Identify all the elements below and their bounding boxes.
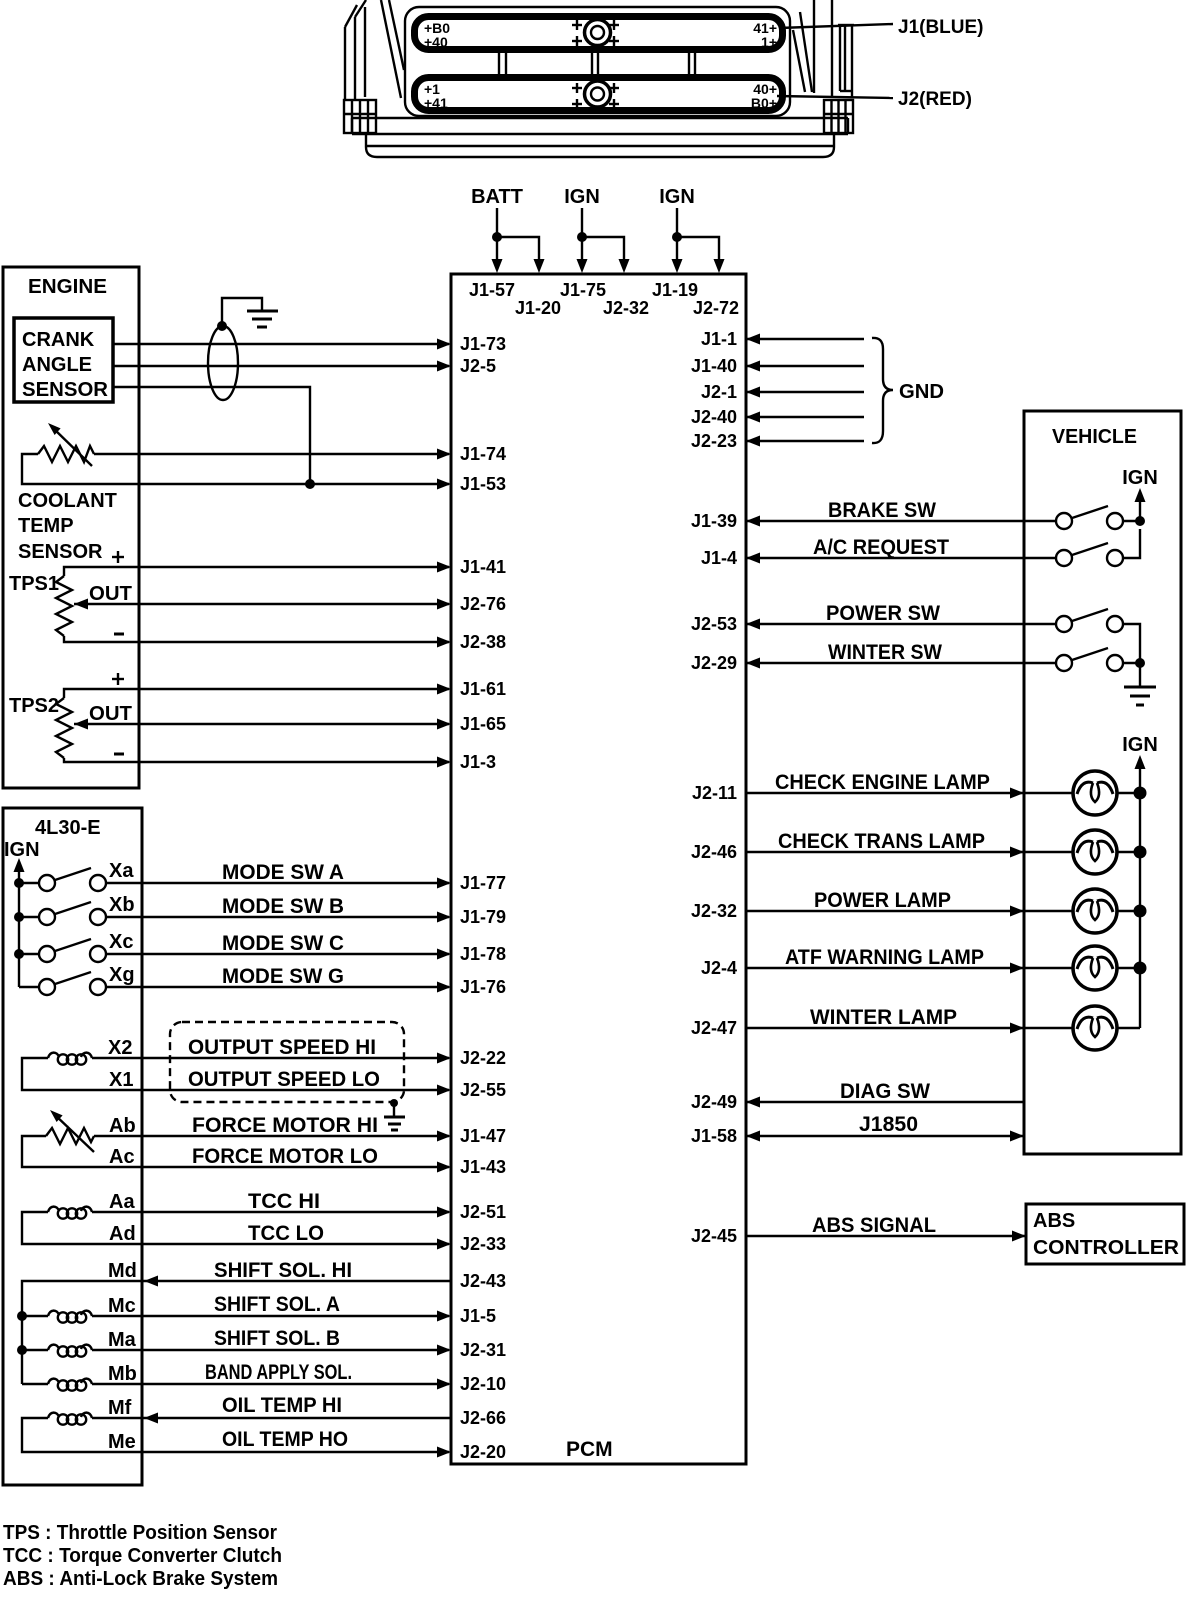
svg-text:J1-3: J1-3 — [460, 752, 496, 772]
PCM module box — [451, 274, 746, 1464]
node Mc junction — [17, 1311, 27, 1321]
svg-text:FORCE MOTOR LO: FORCE MOTOR LO — [192, 1145, 378, 1168]
wire coolant to J1-53 — [22, 454, 451, 490]
IGN feed line with arrow — [14, 858, 25, 987]
connector center ribs — [499, 51, 695, 75]
twisted pair shield ellipse — [208, 326, 238, 400]
svg-text:J1-41: J1-41 — [460, 557, 506, 577]
wire MODE SW A to J1-77 — [106, 861, 451, 889]
wire WINTER LAMP from J2-47 — [746, 1006, 1073, 1034]
svg-text:Mf: Mf — [108, 1397, 132, 1419]
svg-text:Me: Me — [108, 1431, 136, 1453]
VEHICLE box — [1024, 411, 1181, 1154]
svg-text:J2-51: J2-51 — [460, 1202, 506, 1222]
svg-text:J1850: J1850 — [859, 1113, 918, 1136]
wire TCC LO to J2-33 — [22, 1212, 451, 1250]
svg-text:POWER LAMP: POWER LAMP — [814, 889, 951, 912]
svg-text:J1-75: J1-75 — [560, 280, 606, 300]
lamp power lamp — [1073, 889, 1140, 933]
leader J2 — [777, 96, 893, 98]
svg-text:Ab: Ab — [109, 1115, 136, 1137]
wire MODE SW G to J1-76 — [106, 965, 451, 993]
wire FORCE MOTOR LO to J1-43 — [22, 1136, 451, 1173]
svg-text:+40: +40 — [424, 34, 448, 50]
leader J1 — [779, 24, 893, 28]
svg-text:BRAKE SW: BRAKE SW — [828, 499, 936, 522]
wire FORCE MOTOR HI to J1-47 — [94, 1114, 451, 1142]
crank angle sensor box — [14, 318, 113, 402]
wire TPS2 OUT to J1-65 — [74, 719, 451, 730]
wire MODE SW B to J1-79 — [106, 895, 451, 923]
svg-text:J2-10: J2-10 — [460, 1374, 506, 1394]
wire BRAKE SW to J1-39 — [746, 499, 1056, 527]
svg-text:J2-22: J2-22 — [460, 1048, 506, 1068]
node Ma junction — [17, 1345, 27, 1355]
svg-text:J1-74: J1-74 — [460, 444, 506, 464]
wire TPS1 OUT to J2-76 — [74, 599, 451, 610]
wire TCC HI to J2-51 — [92, 1190, 451, 1218]
IGN feed wire (switches) — [1135, 488, 1146, 526]
wire ATF WARNING LAMP from J2-4 — [746, 946, 1073, 974]
svg-text:BATT: BATT — [471, 186, 523, 208]
svg-text:BAND APPLY SOL.: BAND APPLY SOL. — [205, 1361, 352, 1384]
svg-text:Md: Md — [108, 1260, 137, 1282]
svg-text:Xc: Xc — [109, 931, 133, 953]
svg-text:OUTPUT SPEED HI: OUTPUT SPEED HI — [188, 1036, 376, 1059]
housing base plate — [352, 118, 848, 157]
svg-text:Ad: Ad — [109, 1223, 136, 1245]
ground symbol (shield) — [247, 311, 278, 327]
TPS1 minus sign — [114, 633, 124, 636]
svg-text:J1-53: J1-53 — [460, 474, 506, 494]
svg-text:J2-66: J2-66 — [460, 1408, 506, 1428]
wire OIL TEMP HO to J2-20 — [22, 1418, 451, 1458]
svg-text:IGN: IGN — [1122, 734, 1158, 756]
svg-text:SENSOR: SENSOR — [18, 541, 103, 563]
svg-text:J2(RED): J2(RED) — [898, 89, 972, 110]
node Xa junction — [14, 878, 24, 888]
svg-text:J2-20: J2-20 — [460, 1442, 506, 1462]
svg-text:J2-53: J2-53 — [691, 614, 737, 634]
svg-text:TEMP: TEMP — [18, 515, 74, 537]
svg-text:J1-47: J1-47 — [460, 1126, 506, 1146]
oil temp sensor coil Mf — [48, 1397, 136, 1453]
shift solenoid B coil Ma — [22, 1329, 137, 1357]
wire coolant to J1-74 — [94, 449, 451, 460]
svg-text:OUT: OUT — [89, 703, 132, 725]
svg-text:J2-38: J2-38 — [460, 632, 506, 652]
svg-text:TPS1: TPS1 — [9, 573, 59, 595]
svg-text:X2: X2 — [108, 1037, 132, 1059]
TPS2 plus sign — [112, 673, 124, 685]
switch Xc — [19, 931, 133, 962]
svg-text:TCC HI: TCC HI — [248, 1190, 320, 1213]
svg-text:J1-39: J1-39 — [691, 511, 737, 531]
PCM connector housing outline — [345, 0, 854, 116]
BATT wire — [492, 208, 545, 273]
force motor variable resistor Ab/Ac — [46, 1110, 136, 1168]
svg-text:VEHICLE: VEHICLE — [1052, 426, 1137, 448]
svg-text:WINTER LAMP: WINTER LAMP — [810, 1006, 957, 1029]
svg-text:J2-31: J2-31 — [460, 1340, 506, 1360]
svg-text:Mb: Mb — [108, 1363, 137, 1385]
svg-text:J2-32: J2-32 — [603, 298, 649, 318]
node Xc junction — [14, 949, 24, 959]
svg-text:OUT: OUT — [89, 583, 132, 605]
wire CHECK TRANS LAMP from J2-46 — [746, 830, 1073, 858]
housing clip left — [344, 100, 376, 133]
wire BAND APPLY SOL. to J2-10 — [92, 1361, 451, 1390]
IGN wire 1 — [577, 208, 630, 273]
svg-text:POWER SW: POWER SW — [826, 602, 940, 625]
svg-text:J1-58: J1-58 — [691, 1126, 737, 1146]
svg-text:J1-79: J1-79 — [460, 907, 506, 927]
svg-text:J1-57: J1-57 — [469, 280, 515, 300]
COOLANT TEMP SENSOR label — [18, 490, 117, 563]
svg-text:SHIFT SOL. B: SHIFT SOL. B — [214, 1327, 340, 1350]
GND brace — [872, 338, 893, 443]
svg-text:MODE SW G: MODE SW G — [222, 965, 344, 988]
svg-text:J2-46: J2-46 — [691, 842, 737, 862]
svg-text:IGN: IGN — [1122, 467, 1158, 489]
svg-text:CHECK TRANS LAMP: CHECK TRANS LAMP — [778, 830, 985, 853]
shift solenoid A coil Mc — [22, 1295, 136, 1323]
node lamp junction — [1134, 905, 1147, 918]
svg-text:TPS : Throttle Position Sensor: TPS : Throttle Position Sensor — [3, 1522, 277, 1544]
shield drain node — [390, 1099, 398, 1107]
svg-text:GND: GND — [899, 381, 944, 403]
svg-text:COOLANT: COOLANT — [18, 490, 117, 512]
svg-text:SHIFT SOL. HI: SHIFT SOL. HI — [214, 1259, 352, 1282]
svg-text:J1-65: J1-65 — [460, 714, 506, 734]
housing clip right — [824, 100, 853, 133]
wire WINTER SW to J2-29 — [746, 641, 1056, 669]
shielded pair dashed box — [170, 1022, 404, 1102]
svg-text:IGN: IGN — [4, 839, 40, 861]
wire POWER LAMP from J2-32 — [746, 889, 1073, 917]
svg-text:IGN: IGN — [564, 186, 600, 208]
svg-text:J2-23: J2-23 — [691, 431, 737, 451]
wire ABS SIGNAL from J2-45 — [746, 1214, 1026, 1242]
ground symbol (output speed shield) — [384, 1117, 405, 1130]
svg-text:ABS : Anti-Lock Brake System: ABS : Anti-Lock Brake System — [3, 1568, 278, 1590]
svg-text:J2-29: J2-29 — [691, 653, 737, 673]
svg-text:J1-40: J1-40 — [691, 356, 737, 376]
svg-text:B0+: B0+ — [751, 95, 777, 111]
output speed sensor coil X2/X1 — [48, 1037, 133, 1091]
wire SHIFT SOL. A to J1-5 — [92, 1293, 451, 1322]
svg-text:J1-20: J1-20 — [515, 298, 561, 318]
svg-text:J1-76: J1-76 — [460, 977, 506, 997]
svg-text:J2-1: J2-1 — [701, 382, 737, 402]
switch Xb — [19, 894, 135, 925]
svg-text:IGN: IGN — [659, 186, 695, 208]
wire OIL TEMP HI from J2-66 — [92, 1394, 451, 1424]
ENGINE box — [3, 267, 139, 788]
wire TPS2 + to J1-61 — [64, 684, 451, 699]
svg-text:ATF WARNING LAMP: ATF WARNING LAMP — [785, 946, 984, 969]
wire TPS1 + to J1-41 — [64, 562, 451, 577]
TCC solenoid coil Aa/Ad — [48, 1191, 136, 1245]
band apply solenoid coil Mb — [22, 1363, 137, 1391]
svg-text:J2-45: J2-45 — [691, 1226, 737, 1246]
connector J2 slot — [415, 78, 783, 112]
svg-text:Xg: Xg — [109, 964, 135, 986]
svg-text:OUTPUT SPEED LO: OUTPUT SPEED LO — [188, 1068, 380, 1091]
node lamp junction — [1134, 846, 1147, 859]
lamp winter lamp — [1073, 1006, 1140, 1050]
svg-text:OIL TEMP HI: OIL TEMP HI — [222, 1394, 342, 1417]
svg-text:Mc: Mc — [108, 1295, 136, 1317]
svg-text:J1-43: J1-43 — [460, 1157, 506, 1177]
svg-text:A/C REQUEST: A/C REQUEST — [813, 536, 949, 559]
svg-text:ANGLE: ANGLE — [22, 354, 92, 376]
svg-text:FORCE MOTOR HI: FORCE MOTOR HI — [192, 1114, 378, 1137]
TPS2 minus sign — [114, 753, 124, 756]
svg-text:X1: X1 — [109, 1069, 133, 1091]
a/c request switch — [1056, 529, 1140, 566]
winter switch — [1056, 648, 1145, 671]
svg-text:TCC : Torque Converter Clutch: TCC : Torque Converter Clutch — [3, 1545, 282, 1567]
switch Xa — [19, 860, 134, 891]
ABS CONTROLLER box — [1026, 1204, 1184, 1264]
svg-text:1+: 1+ — [761, 34, 777, 50]
GND wires J1-1 J1-40 J2-1 J2-40 J2-23 — [746, 334, 864, 447]
node lamp junction — [1134, 962, 1147, 975]
power switch — [1056, 609, 1140, 663]
lamp check trans lamp — [1073, 830, 1140, 874]
wire crank shield to J1-53 node — [113, 387, 310, 484]
node Xb junction — [14, 912, 24, 922]
svg-text:MODE SW C: MODE SW C — [222, 932, 344, 955]
lamp check engine lamp — [1073, 771, 1140, 815]
svg-text:J1(BLUE): J1(BLUE) — [898, 17, 984, 38]
wire CHECK ENGINE LAMP from J2-11 — [746, 771, 1073, 799]
svg-text:OIL TEMP HO: OIL TEMP HO — [222, 1428, 348, 1451]
svg-text:TPS2: TPS2 — [9, 695, 59, 717]
svg-text:J2-43: J2-43 — [460, 1271, 506, 1291]
svg-text:J1-5: J1-5 — [460, 1306, 496, 1326]
coolant temp sensor (thermistor) — [38, 423, 94, 466]
svg-text:Xa: Xa — [109, 860, 134, 882]
svg-text:+41: +41 — [424, 95, 448, 111]
IGN feed wire (lamps) — [1135, 755, 1146, 1028]
svg-text:J1-73: J1-73 — [460, 334, 506, 354]
svg-text:J2-33: J2-33 — [460, 1234, 506, 1254]
svg-text:MODE SW A: MODE SW A — [222, 861, 344, 884]
svg-text:CONTROLLER: CONTROLLER — [1033, 1237, 1180, 1259]
wire SHIFT SOL. HI from J2-43 — [22, 1259, 451, 1384]
4L30-E transmission box — [3, 808, 142, 1485]
svg-text:SHIFT SOL. A: SHIFT SOL. A — [214, 1293, 340, 1316]
svg-text:Ma: Ma — [108, 1329, 137, 1351]
svg-text:Aa: Aa — [109, 1191, 135, 1213]
wire crank to J2-5 — [113, 361, 451, 372]
svg-text:CHECK ENGINE LAMP: CHECK ENGINE LAMP — [775, 771, 990, 794]
svg-text:J2-76: J2-76 — [460, 594, 506, 614]
svg-text:SENSOR: SENSOR — [22, 379, 109, 401]
ground symbol (switches) — [1124, 663, 1156, 705]
shield ground wire — [217, 298, 262, 331]
svg-text:WINTER SW: WINTER SW — [828, 641, 942, 664]
svg-text:4L30-E: 4L30-E — [35, 817, 101, 839]
svg-text:J1-19: J1-19 — [652, 280, 698, 300]
connector J1 slot — [415, 17, 783, 51]
svg-text:TCC LO: TCC LO — [248, 1222, 324, 1245]
svg-text:ABS: ABS — [1033, 1210, 1075, 1232]
TPS1 plus sign — [112, 551, 124, 563]
brake switch — [1056, 506, 1140, 529]
wire A/C REQUEST to J1-4 — [746, 536, 1056, 564]
svg-text:DIAG SW: DIAG SW — [840, 1080, 930, 1103]
wire TPS2 - to J1-3 — [64, 757, 451, 768]
svg-text:ABS SIGNAL: ABS SIGNAL — [812, 1214, 936, 1237]
svg-text:J2-32: J2-32 — [691, 901, 737, 921]
svg-text:MODE SW B: MODE SW B — [222, 895, 344, 918]
wire TPS1 - to J2-38 — [64, 636, 451, 648]
J1 screw boss — [585, 20, 611, 46]
svg-text:J2-72: J2-72 — [693, 298, 739, 318]
wire crank to J1-73 — [113, 339, 451, 350]
TPS1 potentiometer — [9, 573, 72, 636]
svg-text:Ac: Ac — [109, 1146, 135, 1168]
svg-text:J2-5: J2-5 — [460, 356, 496, 376]
svg-text:J1-4: J1-4 — [701, 548, 737, 568]
wire OUTPUT SPEED HI to J2-22 — [92, 1053, 451, 1064]
switch Xg — [19, 964, 135, 995]
J2 screw boss — [585, 81, 611, 107]
wire OUTPUT SPEED LO to J2-55 — [22, 1058, 451, 1096]
svg-text:J2-47: J2-47 — [691, 1018, 737, 1038]
svg-text:J2-55: J2-55 — [460, 1080, 506, 1100]
TPS2 potentiometer — [9, 695, 72, 758]
node lamp junction — [1134, 787, 1147, 800]
IGN wire 2 — [672, 208, 725, 273]
wire DIAG SW to J2-49 — [746, 1080, 1024, 1108]
svg-text:CRANK: CRANK — [22, 329, 95, 351]
svg-text:J2-11: J2-11 — [692, 783, 737, 803]
svg-text:Xb: Xb — [109, 894, 135, 916]
svg-text:J1-1: J1-1 — [701, 329, 737, 349]
svg-text:J2-40: J2-40 — [691, 407, 737, 427]
lamp atf warning lamp — [1073, 946, 1140, 990]
svg-text:ENGINE: ENGINE — [28, 276, 107, 298]
wire POWER SW to J2-53 — [746, 602, 1056, 630]
svg-text:J1-78: J1-78 — [460, 944, 506, 964]
wire MODE SW C to J1-78 — [106, 932, 451, 960]
svg-text:J1-77: J1-77 — [460, 873, 506, 893]
svg-text:J2-49: J2-49 — [691, 1092, 737, 1112]
wire SHIFT SOL. B to J2-31 — [92, 1327, 451, 1356]
wire J1850 to J1-58 — [746, 1113, 1024, 1142]
svg-text:J1-61: J1-61 — [460, 679, 506, 699]
svg-text:PCM: PCM — [566, 1438, 613, 1461]
svg-text:J2-4: J2-4 — [701, 958, 737, 978]
